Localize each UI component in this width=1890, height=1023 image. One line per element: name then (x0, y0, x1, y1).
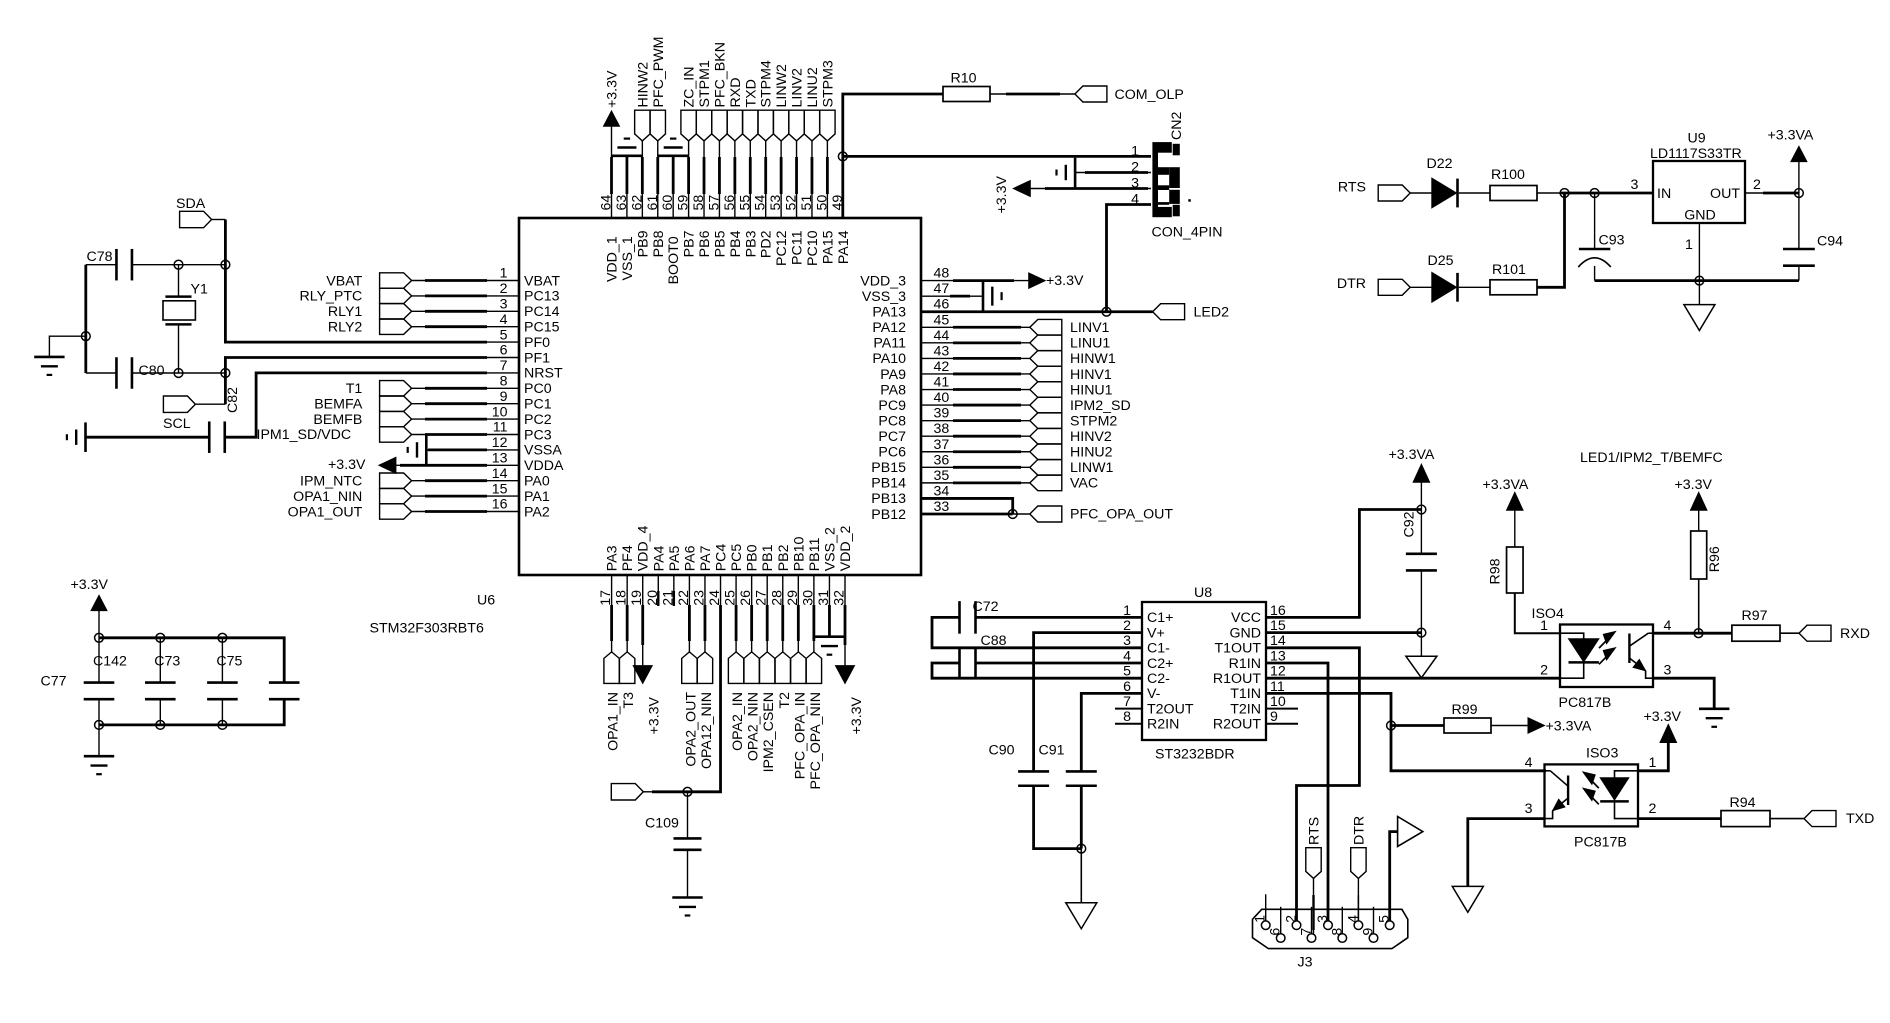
svg-text:PA9: PA9 (880, 367, 906, 383)
U6 pin 48 VDD_3 (860, 266, 949, 290)
svg-text:R2IN: R2IN (1147, 717, 1179, 733)
svg-text:PFC_OPA_IN: PFC_OPA_IN (792, 692, 808, 779)
wire node to ground (1080, 849, 1082, 903)
node junction RXD (1694, 629, 1703, 638)
connector OPA12_NIN (697, 652, 715, 769)
svg-text:COM_OLP: COM_OLP (1115, 87, 1184, 103)
wire pin 4 (412, 326, 519, 328)
svg-text:PF0: PF0 (524, 335, 550, 351)
svg-text:+3.3VA: +3.3VA (1483, 477, 1529, 493)
svg-text:PC8: PC8 (878, 413, 906, 429)
connector OPA2_NIN (744, 652, 762, 761)
wire RTS to D22 (1410, 192, 1432, 194)
svg-text:OUT: OUT (1710, 186, 1740, 202)
connector LINW1 (1030, 460, 1114, 477)
svg-text:PA10: PA10 (872, 351, 906, 367)
pin 55 stub (749, 193, 751, 218)
svg-text:T1OUT: T1OUT (1214, 641, 1261, 657)
pin 63 stub (626, 193, 628, 218)
U6 pin 6 PF1 (500, 343, 551, 367)
pin 53 stub (780, 193, 782, 218)
svg-text:37: 37 (934, 437, 950, 453)
wire pin 42 (921, 373, 1030, 375)
U8 pin 14 T1OUT (1214, 633, 1285, 656)
wire U8 pin2 V+ to C90 (1034, 633, 1142, 772)
wire to ground (98, 725, 100, 756)
U8 pin 7 stub (1115, 708, 1142, 710)
capacitor C73 (145, 638, 180, 725)
ISO3 phototransistor (1545, 771, 1569, 819)
wire CN2 pin 4 to LED2 node (1107, 205, 1152, 312)
svg-text:40: 40 (934, 390, 950, 406)
svg-text:PB7: PB7 (682, 230, 698, 257)
svg-text:3: 3 (500, 297, 508, 313)
power +3.3V cap bank (71, 577, 109, 638)
wire pin 18 (626, 591, 628, 652)
svg-text:1: 1 (500, 266, 508, 282)
J3 pin 4 (1345, 895, 1362, 930)
U6 pin 63 VSS_1 (614, 195, 636, 281)
svg-text:T1: T1 (346, 381, 363, 397)
connector RTS to J3 pin7 (1306, 817, 1323, 934)
wire C82 to NRST (225, 373, 519, 437)
svg-text:HINU2: HINU2 (1070, 445, 1113, 461)
J3 pin 3 (1315, 915, 1332, 930)
wire R101 to node (1537, 193, 1565, 287)
pin 57 stub (718, 193, 720, 218)
svg-text:+3.3V: +3.3V (1046, 273, 1084, 289)
wire C72 to C1- (932, 617, 1142, 647)
svg-text:T2IN: T2IN (1230, 701, 1261, 717)
wire U8 pin16 VCC to +3.3VA node (1266, 510, 1421, 618)
node junction SDA/C78 (221, 260, 230, 269)
svg-text:9: 9 (500, 389, 508, 405)
power +3.3V ISO3 (1644, 709, 1682, 743)
U9 pin 1 GND stem (1685, 223, 1699, 305)
off-sheet arrow J3 pin5 (1398, 817, 1423, 847)
wire U8 pin15 GND (1266, 631, 1421, 634)
svg-text:PB15: PB15 (871, 460, 906, 476)
U6 pin 2 PC13 (500, 281, 560, 305)
pin 18 stub (626, 575, 628, 591)
U6 pin 21 PA5 (660, 545, 683, 605)
svg-text:PA6: PA6 (682, 545, 698, 571)
U6 pin 1 VBAT (500, 266, 561, 290)
svg-text:V-: V- (1147, 686, 1161, 702)
U6 pin 7 NRST (500, 358, 563, 382)
ground U8 GND (1406, 656, 1437, 678)
U6 pin 20 PA4 (645, 545, 668, 605)
svg-text:IPM_NTC: IPM_NTC (300, 474, 362, 490)
wire ISO3 pin1 to +3.3V (1638, 742, 1668, 771)
svg-text:OPA12_NIN: OPA12_NIN (699, 692, 715, 769)
connector HINW1 (1030, 351, 1116, 368)
U8 pin 11 T1IN (1230, 679, 1285, 702)
connector PFC_OPA_NIN (806, 652, 824, 790)
wire U8 pin11 T1IN to ISO3 pin4 (1266, 693, 1546, 770)
svg-text:1: 1 (1685, 237, 1693, 253)
connector BEMFA (314, 396, 411, 413)
wire pin 39 (921, 420, 1030, 422)
svg-text:PB13: PB13 (871, 491, 906, 507)
connector LINU2 (804, 67, 821, 141)
connector HINW2 (635, 62, 652, 141)
U6 pin 14 PA0 (492, 466, 550, 490)
wire pin 8 (412, 387, 519, 389)
U8 pin 4 C2+ (1123, 648, 1173, 671)
svg-text:43: 43 (934, 343, 950, 359)
svg-text:PFC_OPA_NIN: PFC_OPA_NIN (808, 692, 824, 790)
connector OPA2_OUT (682, 652, 700, 767)
svg-text:47: 47 (934, 281, 950, 297)
wire pin 1 (412, 280, 519, 282)
U6 pin 40 PC9 (878, 390, 949, 414)
U6 pin 61 PB8 (645, 195, 667, 258)
U6 pin 42 PA9 (880, 359, 949, 383)
resistor R101 (1490, 262, 1537, 295)
U8 pin 5 C2- (1123, 664, 1170, 687)
pin 54 stub (765, 193, 767, 218)
node junction R99 (1387, 721, 1396, 730)
wire pin 36 (921, 466, 1030, 468)
wire to CN2 pin 1 (843, 155, 1151, 158)
U6 reference label (477, 593, 495, 609)
svg-text:C75: C75 (216, 654, 242, 670)
pin 20 unconnected stub (657, 591, 659, 606)
U6 pin 30 PB11 (800, 538, 823, 606)
power +3.3VA R98 (1483, 477, 1529, 547)
svg-text:R10: R10 (951, 71, 977, 87)
svg-text:TXD: TXD (1846, 811, 1874, 827)
svg-text:PC817B: PC817B (1574, 835, 1627, 851)
svg-text:HINU1: HINU1 (1070, 382, 1113, 398)
svg-text:PC13: PC13 (524, 289, 560, 305)
U6 pin 33 PB12 (871, 499, 949, 523)
svg-text:STPM3: STPM3 (820, 60, 836, 107)
svg-text:R97: R97 (1742, 608, 1768, 624)
svg-text:PC14: PC14 (524, 304, 560, 320)
connector IPM_NTC (300, 473, 412, 490)
svg-text:+3.3V: +3.3V (328, 457, 366, 473)
power +3.3V pin 32 (836, 666, 866, 735)
capacitor C91 (1039, 743, 1097, 786)
wire pin 14 (412, 480, 519, 482)
ground (34, 357, 64, 375)
regulator U9 LD1117S33TR (1650, 131, 1745, 224)
U6 pin 32 VDD_2 (832, 525, 855, 605)
connector CN2 CON_4PIN body (1152, 142, 1190, 217)
U6 pin 43 PA10 (872, 343, 949, 367)
pin 21 unconnected stub (673, 591, 675, 606)
wire pin 33 PB12 (921, 513, 1013, 516)
power +3.3V pin 19 (633, 666, 663, 735)
U6 pin 46 PA13 (872, 297, 949, 321)
power +3.3VA R99 (1528, 718, 1592, 735)
svg-text:10: 10 (492, 404, 508, 420)
svg-text:PA1: PA1 (524, 489, 550, 505)
power +3.3V pin48 (1029, 273, 1084, 289)
svg-text:PB2: PB2 (776, 544, 792, 571)
connector LINU1 (1030, 335, 1111, 352)
capacitor C109 (645, 792, 702, 898)
U6 pin 24 PC4 (707, 544, 730, 606)
pin 64 stub (611, 193, 613, 218)
wire J3 pin5 to off-sheet (1390, 832, 1398, 921)
svg-text:VAC: VAC (1070, 476, 1098, 492)
U6 pin 26 PB0 (738, 544, 761, 605)
node junction rail bottom 1 (95, 721, 104, 730)
ISO3 pin 1 label (1649, 755, 1657, 771)
wire DTR to D25 (1410, 286, 1432, 288)
svg-text:PA11: PA11 (873, 336, 906, 352)
svg-text:39: 39 (934, 406, 950, 422)
connector HINV1 (1030, 366, 1112, 383)
ground C109 (672, 898, 702, 916)
svg-text:2: 2 (500, 281, 508, 297)
svg-text:PB14: PB14 (871, 476, 906, 492)
connector OPA1_OUT (288, 504, 412, 521)
wire D22 to R100 (1459, 192, 1490, 194)
pin 30 stub (813, 575, 815, 591)
svg-text:8: 8 (1329, 928, 1345, 936)
svg-text:2: 2 (1753, 177, 1761, 193)
wire VDDA (396, 464, 519, 466)
node junction Y1 bottom (174, 369, 183, 378)
svg-text:RTS: RTS (1307, 817, 1323, 845)
wire R98 to ISO4 pin1 (1515, 593, 1560, 633)
svg-text:PC4: PC4 (714, 544, 730, 572)
wire C78 right to SDA net (132, 264, 226, 266)
svg-text:BEMFB: BEMFB (313, 412, 362, 428)
svg-text:CON_4PIN: CON_4PIN (1152, 225, 1223, 241)
svg-text:PA7: PA7 (698, 545, 714, 571)
U8 pin 8 R2IN (1123, 709, 1179, 732)
svg-text:1: 1 (1253, 915, 1269, 923)
node junction C93 (1590, 189, 1599, 198)
connector RTS (1338, 180, 1410, 201)
connector OPA1_IN (604, 652, 622, 751)
resistor R98 (1488, 547, 1524, 593)
U8 pin 1 C1+ (1123, 603, 1173, 626)
node junction C78/Y1 (174, 260, 183, 269)
pin 32 stub (844, 575, 846, 591)
svg-text:PFC_BKN: PFC_BKN (712, 42, 728, 107)
svg-text:5: 5 (500, 327, 508, 343)
svg-text:Y1: Y1 (191, 282, 208, 298)
svg-text:VBAT: VBAT (326, 273, 362, 289)
svg-text:HINV2: HINV2 (1070, 429, 1112, 445)
U8 pin 7 T2OUT (1123, 694, 1194, 717)
wire pin 41 (921, 389, 1030, 391)
svg-text:LINW1: LINW1 (1070, 460, 1113, 476)
ISO3 LED light arrows (1583, 772, 1599, 804)
connector STPM2 (1030, 413, 1118, 430)
power +3.3V VDDA (328, 457, 396, 473)
connector STPM4 (758, 60, 775, 141)
J3 pin 1 (1253, 894, 1270, 929)
svg-text:SDA: SDA (176, 196, 206, 212)
svg-text:BEMFA: BEMFA (314, 397, 363, 413)
svg-text:1: 1 (1131, 143, 1139, 159)
pin 51 stub (811, 193, 813, 218)
U9 pin 2 label (1753, 177, 1761, 193)
pin 61 stub (657, 193, 659, 218)
connector T3 (619, 652, 637, 709)
ISO4 pin 2 label (1540, 663, 1548, 679)
svg-text:RLY1: RLY1 (328, 304, 363, 320)
svg-text:C92: C92 (1402, 511, 1418, 537)
U6 pin 55 PB3 (737, 195, 759, 258)
U6 pin 54 PD2 (753, 195, 775, 258)
wire pin 25 (735, 591, 737, 652)
power +3.3V CN2 pin3 (994, 175, 1030, 213)
svg-text:VDD_2: VDD_2 (838, 525, 854, 571)
svg-text:OPA2_OUT: OPA2_OUT (683, 692, 699, 767)
svg-text:C109: C109 (645, 816, 679, 832)
node junction PFC_OPA_OUT (1008, 510, 1017, 519)
wire pin 24 PC4 to C109 node (643, 591, 720, 792)
svg-text:48: 48 (934, 266, 950, 282)
wire ground rail (1595, 279, 1799, 282)
ground U9 (1684, 305, 1715, 331)
wire U9 OUT (1745, 192, 1799, 194)
ISO4 internal LED (1560, 633, 1599, 678)
svg-text:PB0: PB0 (745, 544, 761, 571)
U6 pin 28 PB2 (769, 544, 792, 605)
svg-text:J3: J3 (1298, 955, 1313, 971)
svg-text:SCL: SCL (163, 416, 191, 432)
svg-text:VDD_4: VDD_4 (636, 525, 652, 571)
svg-text:R100: R100 (1491, 167, 1525, 183)
wire U8 pin13 R1IN to J3 pin3 (1266, 663, 1328, 921)
svg-text:PC6: PC6 (878, 445, 906, 461)
wire pin 19 (642, 591, 644, 666)
wire pin 53 (780, 141, 782, 194)
connector ZC_IN (681, 67, 698, 141)
wire pin 55 (749, 141, 751, 194)
svg-text:C142: C142 (93, 654, 127, 670)
U6 pin 31 VSS_2 (816, 527, 839, 606)
svg-text:C1-: C1- (1147, 641, 1170, 657)
pin 50 stub (826, 193, 828, 218)
U6 pin 47 VSS_3 (862, 281, 950, 305)
svg-text:PC0: PC0 (524, 381, 552, 397)
U6 pin 5 PF0 (500, 327, 551, 351)
svg-text:ISO3: ISO3 (1586, 746, 1618, 762)
pin 62 stub (641, 193, 643, 218)
wire pin 50 (826, 141, 828, 194)
wire pin 34 PB13 (921, 498, 1013, 514)
wire top rail (99, 638, 284, 683)
svg-text:42: 42 (934, 359, 950, 375)
pin 24 stub (720, 575, 722, 591)
U6 pin 62 PB9 (629, 195, 651, 258)
ground sideways CN2 pin2 (1057, 158, 1076, 188)
ground ISO3 pin3 (1452, 886, 1483, 912)
svg-text:IPM2_CSEN: IPM2_CSEN (761, 692, 777, 772)
svg-text:LED2: LED2 (1194, 305, 1230, 321)
svg-text:R1OUT: R1OUT (1213, 671, 1261, 687)
J3 pin 6 (1268, 907, 1285, 943)
ground VSSA (408, 435, 427, 465)
MCU U6 STM32F303RBT6 body (519, 218, 921, 575)
svg-text:2: 2 (1284, 915, 1300, 923)
wire to ground symbol (49, 336, 85, 357)
U6 pin 23 PA7 (691, 545, 714, 605)
pin 25 stub (735, 575, 737, 591)
node junction U9 GND (1695, 276, 1704, 285)
svg-text:PA12: PA12 (872, 320, 906, 336)
node junction C90/C91 (1077, 844, 1086, 853)
svg-text:D22: D22 (1427, 156, 1453, 172)
U8 pin 10 stub (1266, 708, 1298, 710)
svg-text:LINV1: LINV1 (1070, 320, 1110, 336)
wire pin 40 (921, 404, 1030, 406)
svg-text:VCC: VCC (1231, 610, 1261, 626)
node junction RTS/DTR (1560, 189, 1569, 198)
svg-text:VSSA: VSSA (524, 443, 562, 459)
connector LED2 (1153, 304, 1229, 321)
wire R96 bottom (1698, 579, 1700, 633)
svg-text:C82: C82 (225, 387, 241, 413)
svg-text:VDDA: VDDA (524, 458, 564, 474)
connector SDA (176, 196, 212, 228)
svg-text:RTS: RTS (1338, 180, 1366, 196)
svg-text:HINW2: HINW2 (635, 62, 651, 108)
connector BEMFB (313, 411, 411, 428)
svg-text:C90: C90 (989, 743, 1015, 759)
wire to ground triangle (1420, 633, 1422, 657)
wire VSSA (426, 449, 519, 451)
ISO3 pin 4 label (1525, 755, 1533, 771)
svg-text:LINW2: LINW2 (774, 64, 790, 107)
connector PFC_OPA_OUT (1030, 506, 1174, 523)
wire C80 row (86, 372, 226, 374)
svg-text:PF1: PF1 (524, 350, 550, 366)
svg-text:+3.3VA: +3.3VA (1546, 718, 1592, 734)
U6 pin 3 PC14 (500, 297, 560, 321)
svg-text:11: 11 (493, 420, 508, 436)
svg-text:PA15: PA15 (820, 230, 836, 264)
svg-text:2: 2 (1540, 663, 1548, 679)
svg-text:T3: T3 (621, 692, 637, 709)
svg-text:1: 1 (1649, 755, 1657, 771)
svg-text:VSS_1: VSS_1 (620, 236, 636, 280)
wire R94 to TXD (1770, 818, 1804, 820)
wire PF1 net (225, 358, 519, 405)
svg-text:OPA2_IN: OPA2_IN (730, 692, 746, 751)
ground sideways (67, 422, 86, 452)
svg-text:16: 16 (492, 497, 508, 513)
svg-text:PB9: PB9 (635, 230, 651, 257)
connector RLY_PTC (299, 288, 411, 305)
capacitor C75 (207, 638, 242, 725)
svg-text:PC10: PC10 (805, 230, 821, 266)
svg-text:PFC_OPA_OUT: PFC_OPA_OUT (1070, 507, 1173, 523)
wire C90 to ground node (1034, 786, 1082, 849)
pin 56 stub (734, 193, 736, 218)
capacitor C142 (84, 638, 127, 725)
U6 pin 27 PB1 (754, 544, 777, 605)
ground pin 60 (658, 139, 688, 194)
wire CN2 pin 3 to +3.3V (1030, 188, 1151, 190)
svg-text:ZC_IN: ZC_IN (682, 67, 698, 108)
connector HINV2 (1030, 428, 1112, 445)
svg-text:VDD_3: VDD_3 (860, 273, 906, 289)
svg-text:3: 3 (1631, 177, 1639, 193)
node junction rail top 3 (218, 633, 227, 642)
pin 31 stub (828, 575, 830, 591)
